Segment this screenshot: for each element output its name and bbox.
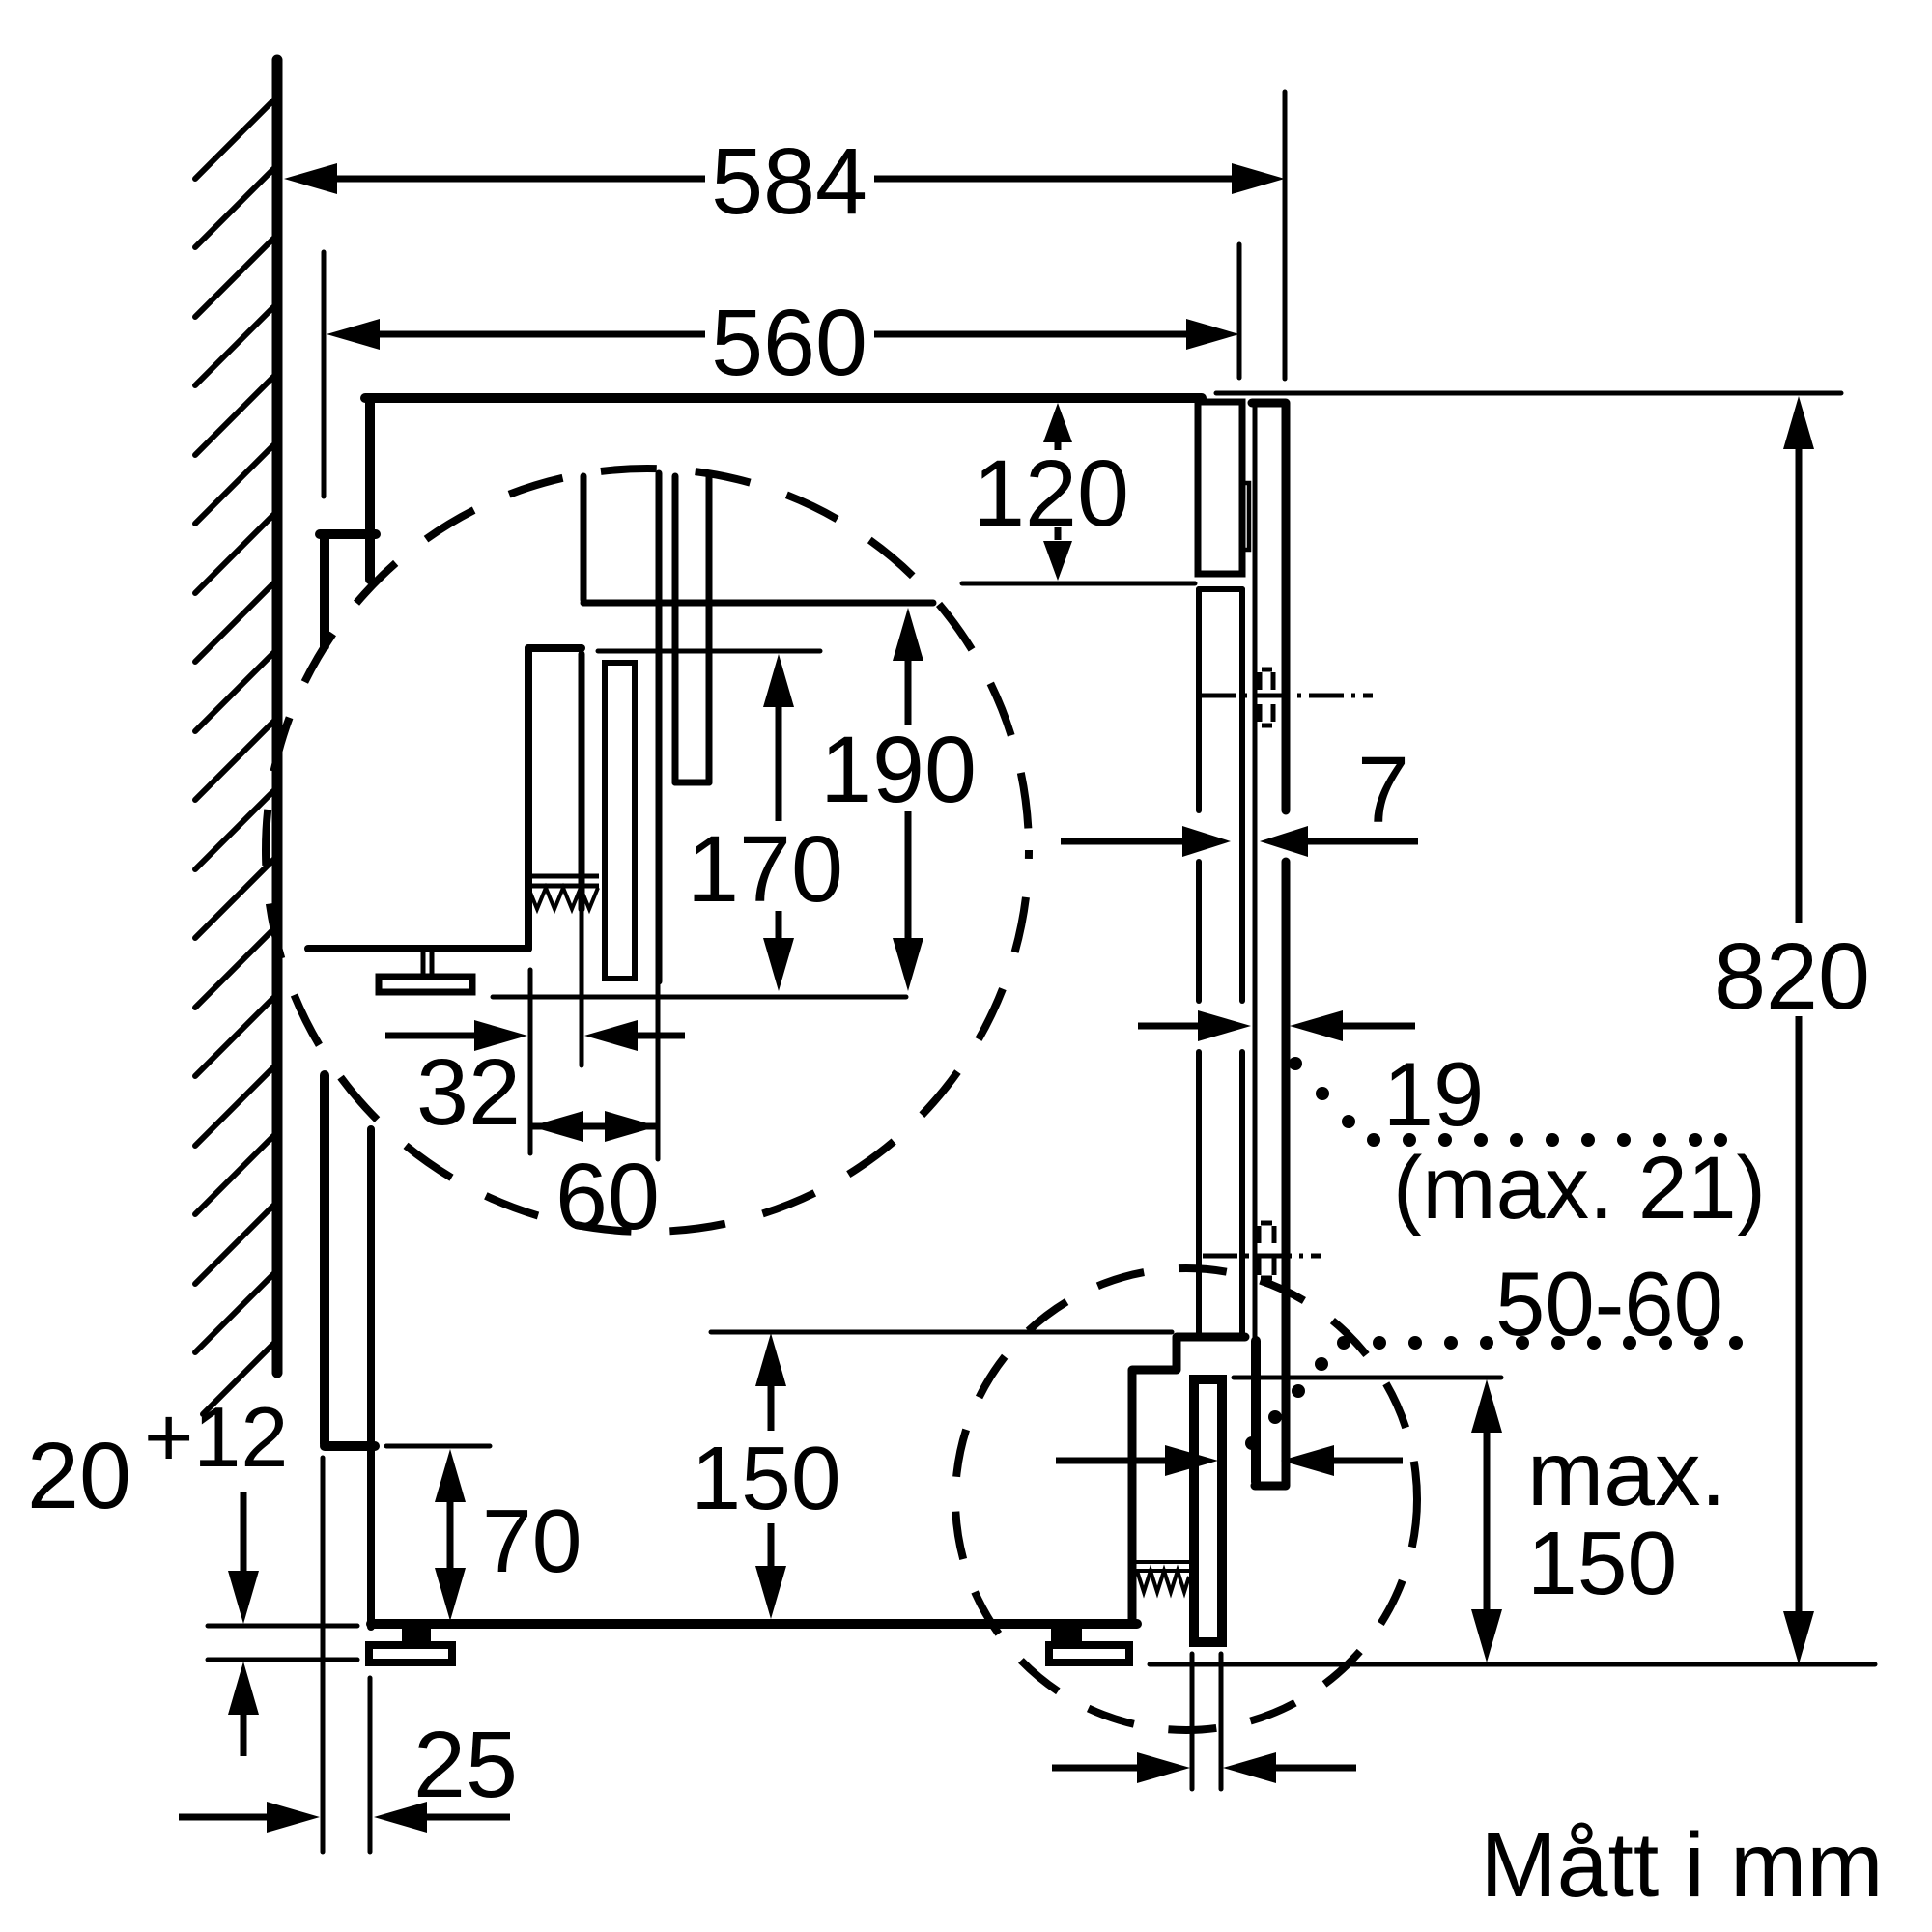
- svg-text:820: 820: [1714, 923, 1870, 1029]
- drawer inner tube: [605, 663, 635, 979]
- door hinge screw upper: [1201, 669, 1373, 725]
- svg-text:19: 19: [1383, 1043, 1485, 1145]
- fill funnel tube: [675, 476, 709, 782]
- extension line 60 right: [656, 981, 661, 1159]
- extension tick plinth right: [1219, 1654, 1224, 1789]
- furniture door rear face lower thick part: [1251, 1341, 1261, 1482]
- left adjustable foot: [369, 1624, 452, 1662]
- label 19: [1383, 1043, 1485, 1145]
- label max 21: [1393, 1139, 1766, 1237]
- svg-text:170: 170: [687, 816, 843, 922]
- drawer thread symbol: [528, 876, 599, 909]
- dimension 20+12: [27, 1389, 288, 1756]
- furniture door front face: [1252, 403, 1286, 1486]
- wall line: [272, 60, 283, 1373]
- machine front upper block: [1198, 402, 1242, 574]
- floor line 20+12 upper: [208, 1624, 357, 1629]
- dimension 60: [530, 1111, 660, 1249]
- svg-text:584: 584: [711, 128, 867, 234]
- svg-text:120: 120: [973, 440, 1129, 546]
- floor line right: [1150, 1662, 1875, 1667]
- svg-text:20: 20: [27, 1423, 131, 1528]
- dimension 25: [179, 1712, 518, 1833]
- dimension 120: [973, 403, 1129, 581]
- dimension 7: [1061, 737, 1418, 857]
- reference line 170 top: [598, 649, 820, 654]
- svg-text:+12: +12: [144, 1389, 288, 1485]
- machine rear lower edge: [367, 1129, 375, 1627]
- svg-text:25: 25: [413, 1712, 518, 1817]
- worktop reference line: [1216, 391, 1841, 396]
- extension line 32 left: [528, 970, 533, 1153]
- svg-text:32: 32: [416, 1039, 521, 1145]
- machine front lower panel: [1199, 589, 1242, 1333]
- machine top panel: [365, 393, 1202, 403]
- dimension 19 door: [1138, 1010, 1415, 1041]
- extension line 560 right: [1237, 244, 1242, 378]
- wall hatching: [195, 97, 277, 1414]
- reference line 120 bottom: [962, 582, 1195, 586]
- extension line 560 left: [322, 252, 327, 497]
- machine bottom line: [371, 1619, 1137, 1629]
- svg-text:560: 560: [711, 290, 867, 395]
- svg-text:70: 70: [482, 1491, 582, 1591]
- svg-text:7: 7: [1357, 737, 1409, 842]
- dotted leader 19: [1289, 1057, 1727, 1147]
- dimension 820: [1714, 396, 1870, 1664]
- svg-text:150: 150: [1527, 1513, 1677, 1613]
- machine rear lower channel: [325, 1075, 375, 1446]
- plinth panel: [1194, 1379, 1222, 1642]
- floor line 20+12 lower: [208, 1658, 357, 1662]
- dimension 584: [284, 128, 1285, 234]
- dimension plinth thickness: [1052, 1752, 1356, 1783]
- svg-text:60: 60: [555, 1144, 660, 1249]
- lower dashed circle: [955, 1268, 1417, 1730]
- svg-text:50-60: 50-60: [1495, 1253, 1723, 1354]
- dimension 170: [687, 654, 843, 991]
- reference line 150 top: [711, 1330, 1172, 1335]
- furniture door rear face: [1253, 403, 1258, 1341]
- drawer support foot: [379, 951, 472, 992]
- label Mått i mm: [1481, 1814, 1884, 1917]
- dimension 190: [820, 608, 977, 991]
- detergent drawer left pipe: [583, 473, 933, 981]
- machine rear upper edge: [365, 398, 375, 580]
- drum dashed circle: [266, 469, 1029, 1232]
- reference line max150 top: [1234, 1376, 1501, 1380]
- dimension 560: [327, 290, 1239, 395]
- reference line 170/190 bottom: [493, 995, 906, 1000]
- dimension 50-60 recess: [1056, 1445, 1403, 1476]
- rear mounting bracket: [320, 534, 376, 646]
- extension line 25 right: [368, 1678, 373, 1852]
- extension line 25 left: [321, 1458, 326, 1852]
- right adjustable foot: [1049, 1624, 1129, 1662]
- dimension 70: [435, 1449, 582, 1621]
- svg-text:190: 190: [820, 717, 977, 822]
- door hinge screw lower: [1203, 1223, 1321, 1278]
- label 50-60: [1495, 1253, 1723, 1354]
- svg-text:150: 150: [691, 1428, 840, 1528]
- svg-text:Mått i mm: Mått i mm: [1481, 1814, 1884, 1917]
- plinth thread symbol: [1136, 1562, 1189, 1592]
- machine front lower staircase: [1132, 1337, 1245, 1624]
- svg-text:max.: max.: [1527, 1423, 1726, 1525]
- dotted leader 50-60: [1245, 1336, 1743, 1450]
- svg-text:(max. 21): (max. 21): [1393, 1139, 1766, 1237]
- dimension 32: [385, 1020, 685, 1145]
- extension line 32 right: [580, 909, 584, 1065]
- extension line 584 right: [1283, 92, 1288, 379]
- front block latch: [1242, 483, 1249, 550]
- reference line 70 top: [386, 1444, 490, 1449]
- drawer box: [308, 648, 582, 949]
- dimension max 150: [1471, 1379, 1726, 1662]
- extension tick plinth left: [1190, 1654, 1195, 1789]
- dimension 150: [691, 1333, 840, 1619]
